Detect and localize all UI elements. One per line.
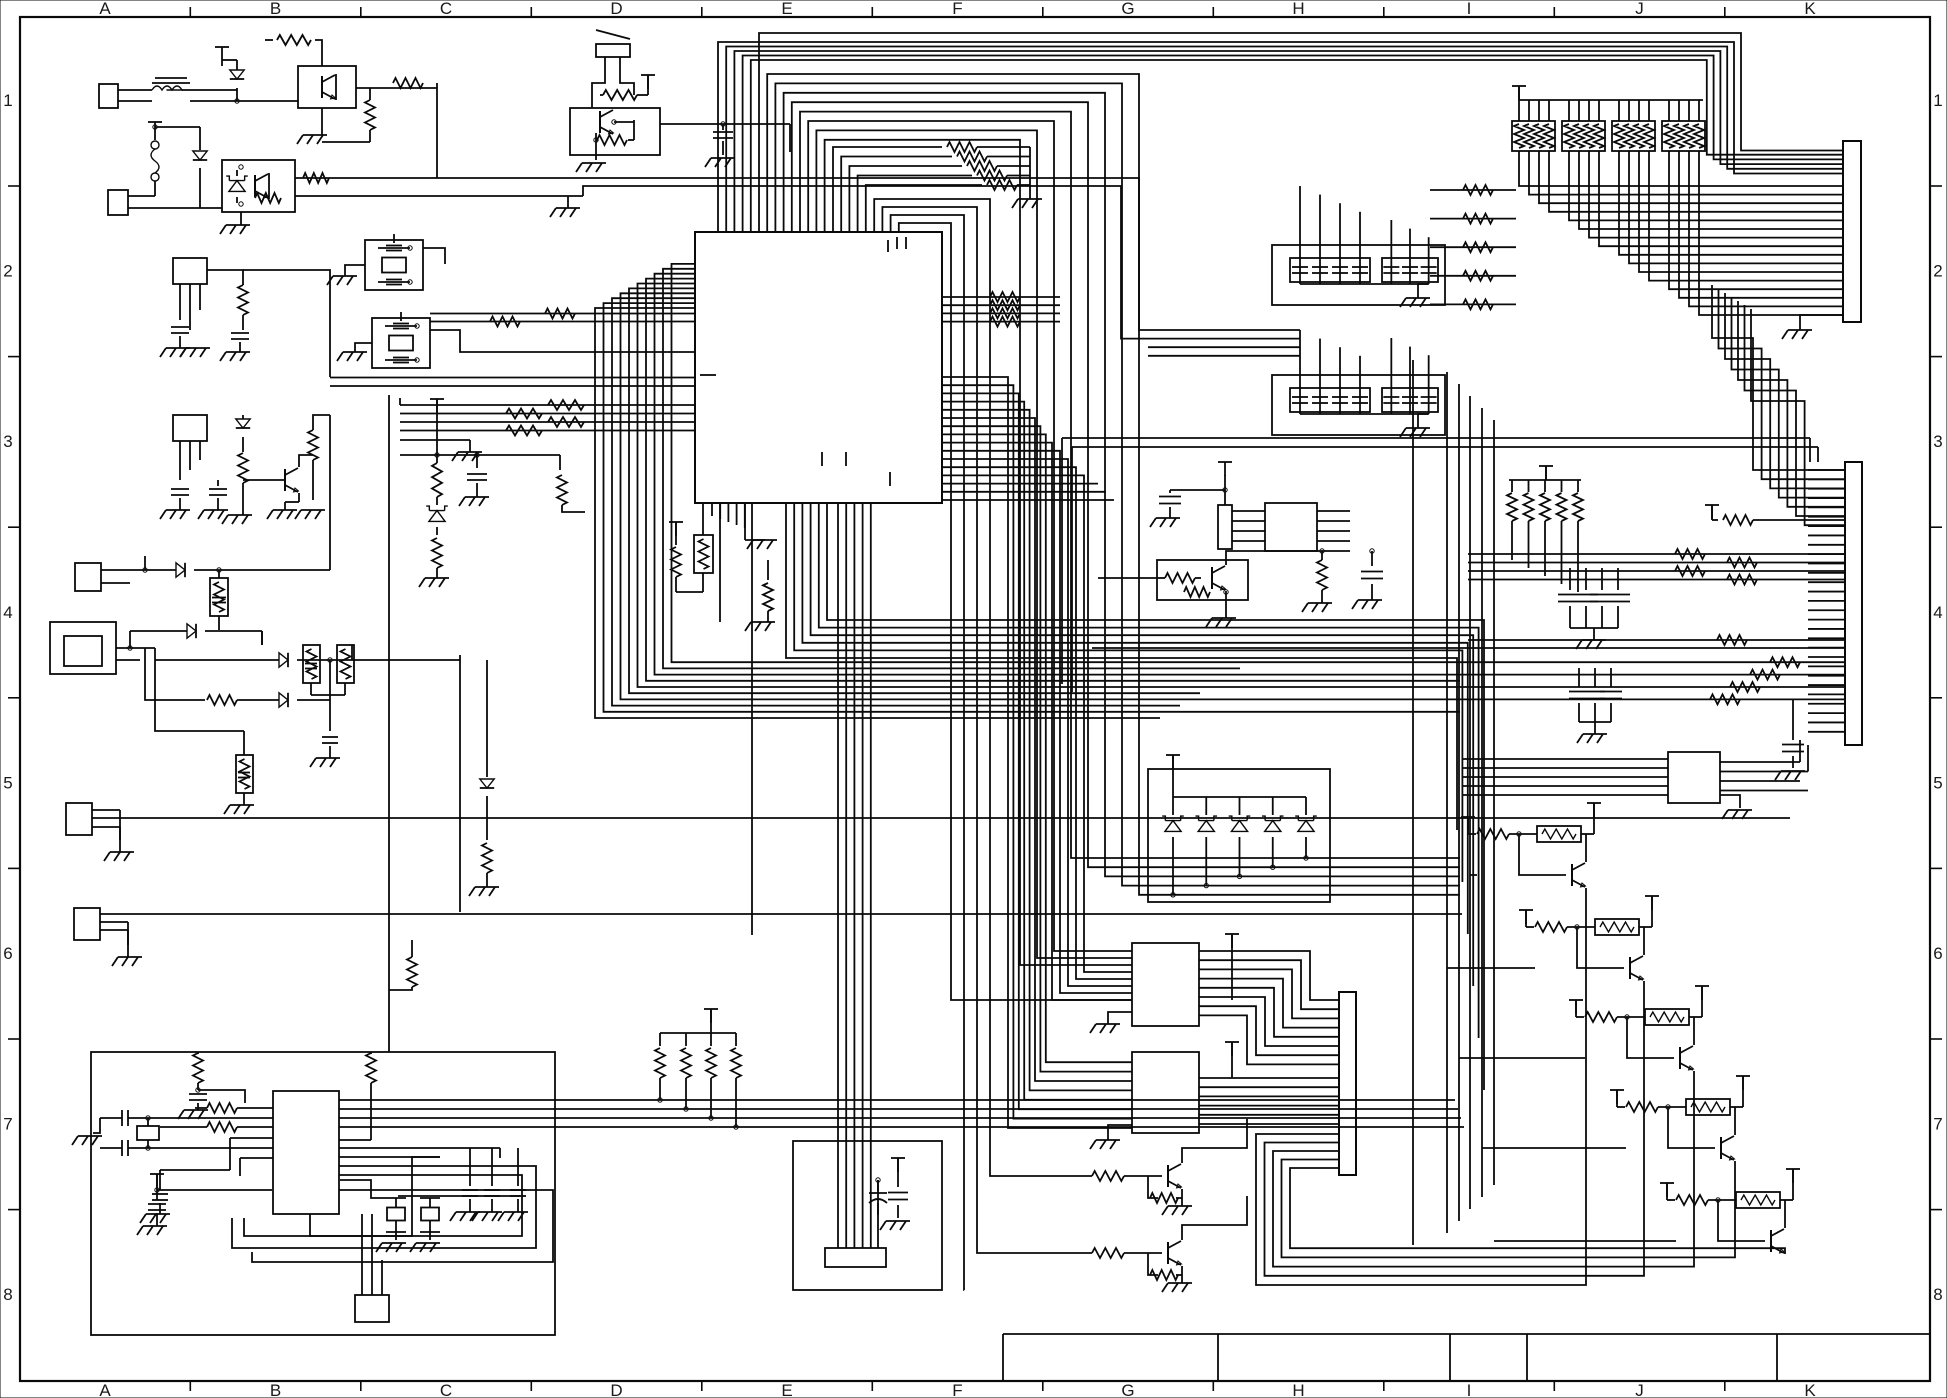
svg-text:A: A [99,1381,111,1398]
svg-text:H: H [1292,0,1304,18]
svg-text:J: J [1635,0,1644,18]
zener diode array group [1148,755,1330,902]
ground at J1 [1782,315,1843,339]
RC filter in sub-board [178,1052,245,1119]
wire stage inputs [1447,875,1676,1241]
svg-text:G: G [1121,0,1134,18]
svg-text:1: 1 [1933,91,1942,110]
U1 bottom pin stubs [712,503,745,528]
resistor group to bus [1507,466,1583,592]
wire net CN2 to U1 [295,186,1300,339]
connector J1 [1843,141,1861,322]
wire bus U1 top pins south of IC [874,199,1132,1290]
svg-text:1: 1 [3,91,12,110]
wire bus U1 top pins to connector J1 [718,42,1843,232]
decoupling capacitor group C row4a [1558,568,1630,649]
wires crystal to U1 [430,309,695,353]
cap group in J5 [869,1158,910,1230]
connector J2 pin stubs [1808,470,1845,732]
connector CN4 with diode [75,556,330,630]
pull resistor group under U1 [669,503,777,631]
connector CN6 row5 [66,803,1790,861]
capacitor C near J2 bottom [1775,700,1805,780]
sub-board internal wires [310,1157,440,1236]
resistor pack RN4 [1662,121,1705,151]
svg-text:3: 3 [3,432,12,451]
svg-text:C: C [440,0,452,18]
connector J5 pins [825,1141,886,1267]
svg-text:3: 3 [1933,432,1942,451]
wire U1 pin down x720 [719,503,721,622]
wire bus U1 left pins loop under IC [595,264,1845,718]
svg-text:7: 7 [3,1115,12,1134]
svg-text:5: 5 [1933,773,1942,792]
svg-text:I: I [1467,0,1472,18]
power rail to resistor packs [1512,86,1703,121]
resistor R sub-board2 [366,1052,376,1110]
svg-text:I: I [1467,1381,1472,1398]
crystal oscillator X2 group [337,312,430,368]
svg-text:E: E [781,0,792,18]
svg-text:K: K [1804,1381,1816,1398]
wires into J2 lower [1092,635,1845,648]
sub MCU U7 [273,1091,339,1214]
driver IC U6 [1090,1052,1199,1149]
crystal oscillator X1 group [327,234,445,290]
svg-text:8: 8 [1933,1285,1942,1304]
title block table [1003,1334,1930,1381]
svg-text:G: G [1121,1381,1134,1398]
resistor pack RN1 [1512,121,1555,151]
pull-up resistor to J2 [1705,505,1845,525]
svg-text:2: 2 [3,262,12,281]
transistor Q2 group [1092,1119,1247,1215]
wire loop row3 long [1062,438,1818,692]
transistor Q8 stage [1660,1169,1800,1253]
sub-board connector CN8 [355,1214,389,1322]
power T at U5 [1225,934,1239,1000]
transistor Q7 stage [1610,1076,1750,1160]
connector J2 [1845,462,1862,745]
wires into cap array row3 [1300,330,1429,420]
wire bus to cap array row3 [1148,347,1300,356]
U7 left pin wires [140,1103,273,1223]
thermistor amplifier group [160,415,330,524]
transistor Q6 stage [1569,986,1709,1070]
wire bus U1 right pins [942,377,1132,1128]
switch S1 [570,30,660,155]
regulator U4 group [1150,462,1350,551]
decoupling capacitor group C row4b [1569,668,1622,743]
wire bus resistor packs to connector J1 [1519,151,1843,315]
wire bus outermost top line [759,33,1843,232]
svg-text:F: F [952,0,962,18]
sensor connector CN3 group [160,258,330,377]
wire bus U6 to J3 [1199,1078,1339,1124]
svg-text:7: 7 [1933,1115,1942,1134]
transistor Q1 bias group [1098,551,1350,627]
svg-text:8: 8 [3,1285,12,1304]
svg-text:5: 5 [3,773,12,792]
svg-text:D: D [610,1381,622,1398]
capacitor array group row3 [1272,375,1445,437]
optocoupler U3 group [220,160,1300,330]
wire bus U5 to J3 [1199,951,1339,1064]
optocoupler U2 group [260,35,437,178]
U7 right pin stubs [232,1110,553,1262]
power T and cap C sub-board [137,1174,272,1235]
wires with resistors into J2 mid [1468,549,1845,585]
decoupling caps sub-board [450,1148,528,1221]
sub-board outline [91,1052,555,1335]
svg-text:2: 2 [1933,262,1942,281]
wire net row4 to U1 area [330,415,460,912]
svg-text:J: J [1635,1381,1644,1398]
interface IC U8 group [1462,740,1808,819]
microcontroller U1 [695,232,942,503]
wire bus U1 upper right pins with resistors [942,292,1060,327]
bias RC to ground [1302,549,1383,612]
svg-text:K: K [1804,0,1816,18]
svg-text:A: A [99,0,111,18]
svg-text:H: H [1292,1381,1304,1398]
svg-text:D: D [610,0,622,18]
series resistors R into U1 left pins [400,398,695,461]
capacitor array group row2 [1272,245,1445,307]
transistor Q4 stage [1461,803,1601,887]
switch interface transistor group [576,75,790,172]
svg-text:4: 4 [3,603,12,622]
input connector CN1 and line filter [99,47,260,108]
transistor Q5 stage [1519,896,1659,980]
connector box J5 outline [793,1141,942,1290]
svg-text:E: E [781,1381,792,1398]
pull-up resistors RN5 on U7 bus [655,1009,741,1129]
wire net across sheet row3 [330,378,695,387]
connector J3 [1339,992,1356,1175]
shunt regulator group (R,zener,C) [400,399,585,587]
pull-down resistor fan group [833,142,1042,232]
resistor pack RN2 [1562,121,1605,151]
wire bus U7 to main board [339,1100,1464,1127]
ground near U3 output [550,196,580,217]
svg-text:C: C [440,1381,452,1398]
svg-text:4: 4 [1933,603,1942,622]
driver IC U5 [1090,943,1199,1033]
diode D clamp x487 [469,660,499,896]
resonators X4 X5 [340,1180,440,1252]
transistor Q3 group [1092,1196,1247,1292]
svg-text:6: 6 [3,944,12,963]
svg-text:B: B [270,1381,281,1398]
svg-text:F: F [952,1381,962,1398]
svg-text:B: B [270,0,281,18]
wire bus U1 bottom pins east [786,503,1484,1090]
wire bus staircase into J2 [1712,285,1845,525]
power T at U6 [1225,1042,1239,1078]
vertical bus right-center [1413,360,1494,1245]
wires with series resistors into J1 rows [1430,185,1516,309]
wires J1 rows into cap arrays [1300,186,1429,290]
svg-text:6: 6 [1933,944,1942,963]
crystal X3 group [72,1110,159,1156]
input connector CN2 with reed switch [108,122,222,215]
resistor pack RN3 [1612,121,1655,151]
connector CN5 bridge network [50,622,460,814]
wire bus J3 return lines [1256,888,1785,1285]
connector CN7 row6 [74,908,1462,966]
wire bus U1 to connector box J5 [838,503,871,1141]
wire bus U1 top pins to central vertical bus [767,74,1460,965]
wire net x389 vertical [389,395,417,1052]
wire U1 pin down-left [751,503,753,935]
